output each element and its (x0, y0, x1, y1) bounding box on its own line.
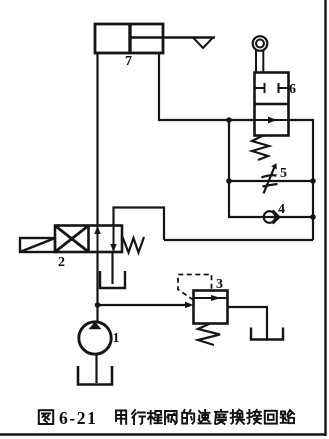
node junction at 229,120 (226, 117, 232, 123)
svg-text:3: 3 (216, 277, 223, 292)
wire: valve 2 B port step up (114, 208, 165, 241)
wire: throttle branch (229, 180, 313, 182)
tank under valve 2 (100, 271, 125, 288)
cylinder 7 piston rod (130, 36, 215, 39)
node junction at 313,181 (310, 178, 316, 184)
page border right (324, 0, 326, 436)
svg-text:4: 4 (278, 202, 285, 217)
glyph 接 (247, 410, 261, 424)
check valve 4 (264, 211, 276, 223)
throttle valve 5 (262, 167, 278, 194)
wire: relief valve outlet to tank (228, 307, 268, 339)
glyph 换 (231, 410, 244, 424)
node junction at 229,181 (226, 178, 232, 184)
glyph 的 (182, 410, 194, 424)
cylinder 7 piston (128, 24, 131, 53)
directional valve 2 body (55, 226, 122, 253)
glyph 速 (199, 410, 211, 423)
glyph 阀 (165, 411, 177, 424)
glyph 路 (281, 410, 294, 423)
valve 2 straight flow paths (right box) (97, 226, 99, 252)
glyph 程 (148, 411, 162, 424)
svg-text:5: 5 (280, 166, 287, 181)
relief valve 3 spring (198, 324, 220, 346)
glyph 回 (265, 411, 277, 424)
relief valve 3 pilot line (dashed) (178, 275, 212, 301)
valve 2 crossed arrows (left box) (56, 226, 89, 252)
valve 6 flow path arrow (bottom box) (255, 119, 289, 121)
svg-text:1: 1 (113, 331, 120, 346)
valve 6 blocked port marks (top box) (255, 83, 288, 93)
valve 2 spring (123, 237, 145, 253)
wire: pump to relief valve 3 (98, 304, 192, 306)
svg-text:6: 6 (289, 82, 296, 97)
glyph 用 (116, 411, 126, 424)
travel valve 6 body (255, 73, 289, 136)
node junction at 97.5,305 (95, 302, 101, 308)
wire: valve 2 T port down to tank (111, 252, 113, 284)
travel valve 6 roller (253, 36, 268, 51)
cylinder 7 body (95, 24, 163, 53)
valve 6 spring (252, 136, 269, 160)
svg-text:2: 2 (58, 255, 65, 270)
svg-text:6-21: 6-21 (59, 408, 97, 428)
svg-text:7: 7 (125, 54, 132, 69)
wire: cylinder left port down to valve 2 A (96, 53, 98, 226)
glyph 行 (132, 410, 145, 424)
pump 1 (79, 322, 111, 354)
caption: 图 6-21 用行程阀的速度换接回路 (39, 410, 294, 424)
relief valve 3 internal arrow (194, 297, 228, 299)
wire: left branch vertical (229, 120, 313, 217)
glyph 度 (215, 410, 228, 424)
tank under pump (78, 366, 112, 385)
tank under relief valve (251, 328, 283, 340)
wire: cylinder right port down (159, 53, 254, 120)
page border bottom (0, 433, 327, 436)
wire: pump suction (95, 354, 97, 383)
wire: valve 2 P port down to pump (96, 252, 98, 322)
cam dog on rod (193, 38, 213, 49)
wire: bottom return of network (164, 239, 313, 241)
travel valve 6 stem (255, 50, 257, 73)
glyph 图 (39, 410, 53, 424)
relief valve 3 body (194, 291, 228, 324)
valve 2 solenoid (20, 238, 55, 252)
wire: valve 6 right port to right bus (289, 120, 314, 240)
node junction at 313,217 (310, 214, 316, 220)
